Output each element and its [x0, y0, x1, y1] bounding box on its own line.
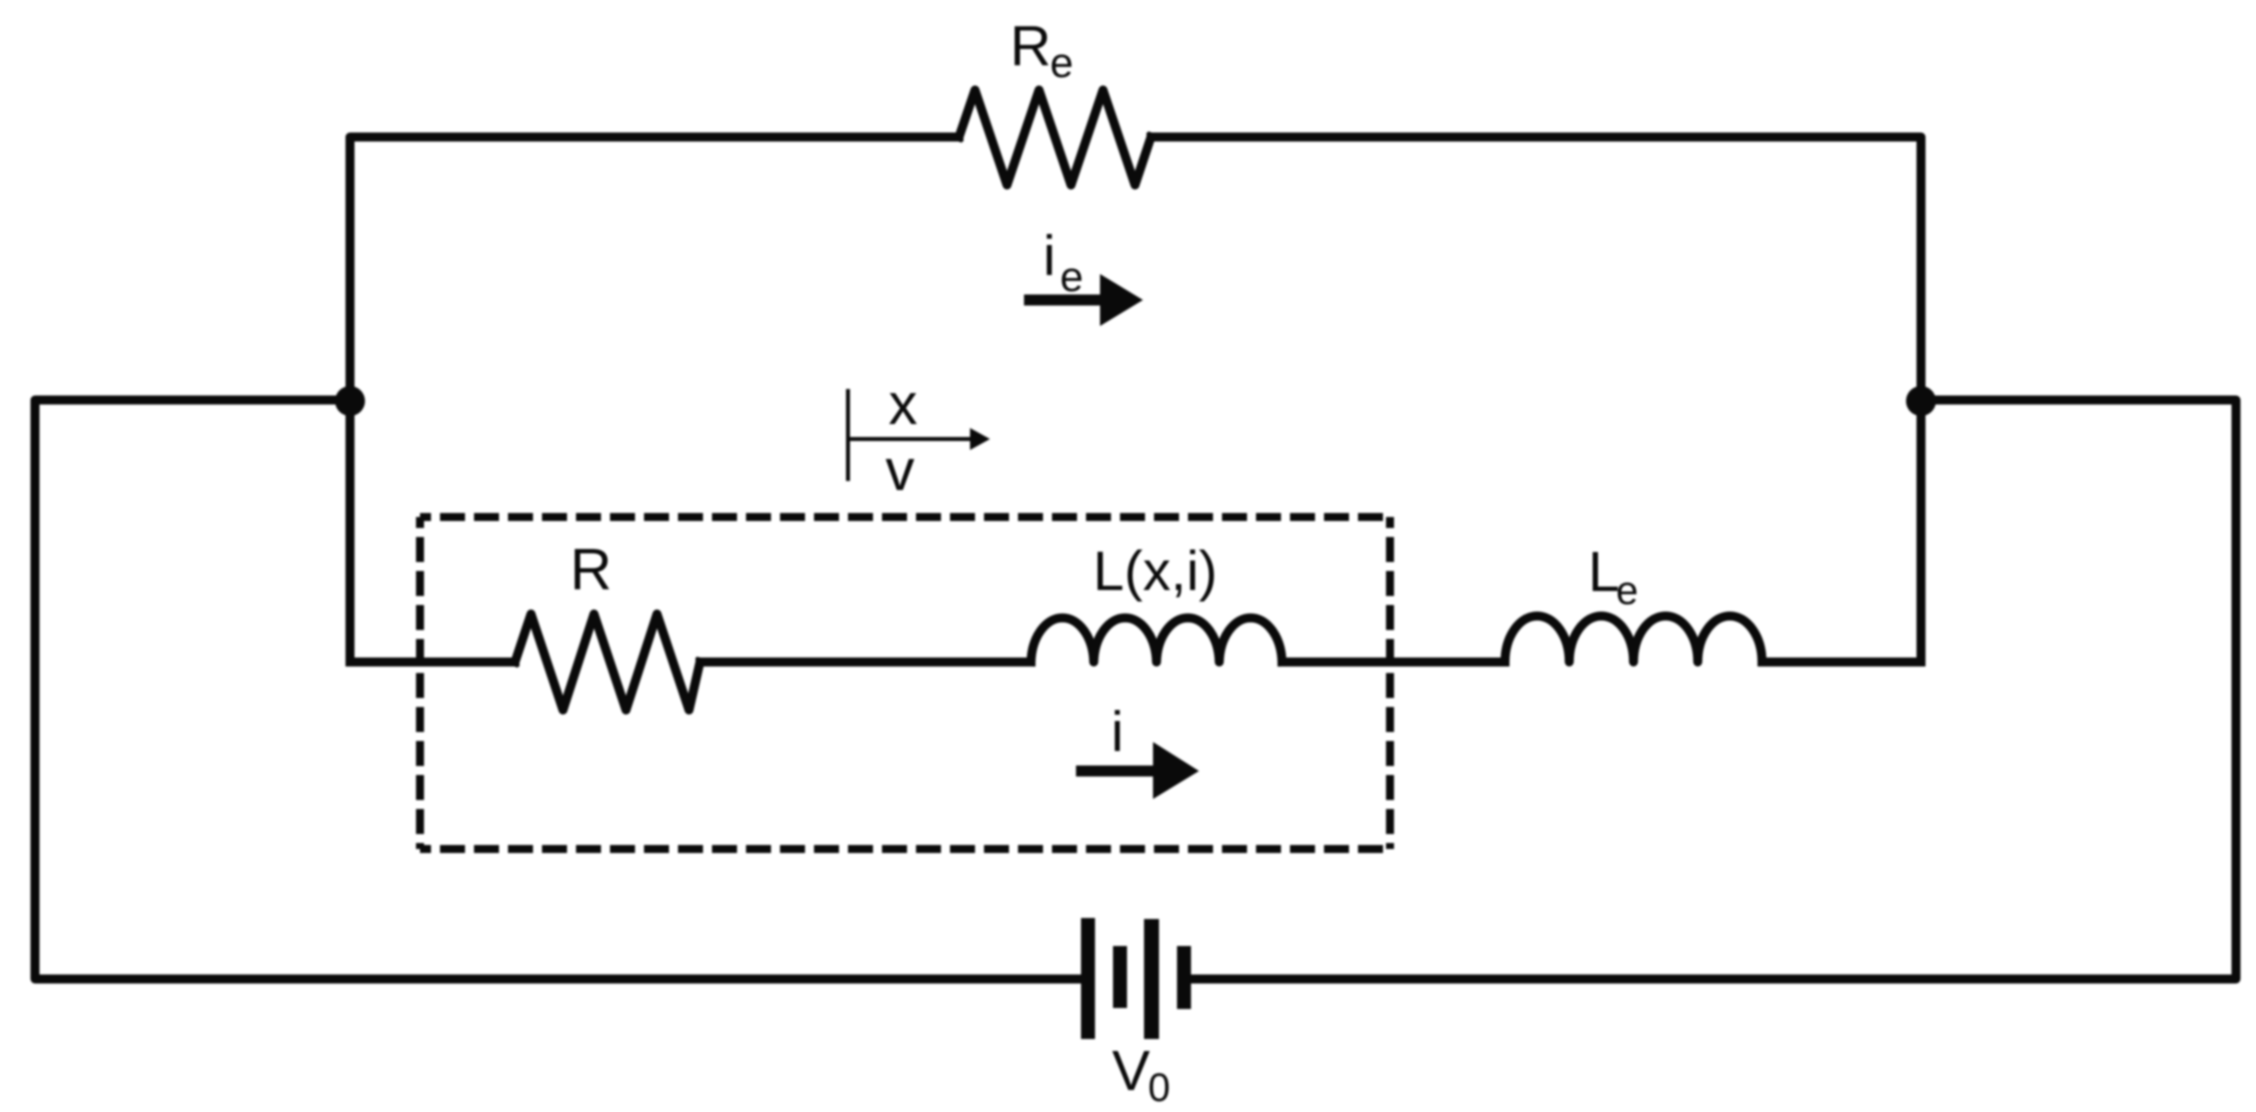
wire L(x,i) to Le — [1282, 658, 1505, 667]
node junction right — [1906, 386, 1936, 416]
svg-text:v: v — [886, 438, 915, 503]
inductor L(x,i) — [1031, 618, 1282, 662]
svg-text:i: i — [1111, 700, 1124, 764]
inductor Le — [1505, 616, 1762, 662]
wire Le to right vertical — [1762, 658, 1921, 667]
svg-text:x: x — [889, 372, 918, 437]
svg-text:R: R — [1010, 14, 1051, 78]
wire top-left segment — [350, 137, 959, 662]
battery V0 — [1081, 918, 1191, 1039]
wire top-right segment — [1151, 137, 1921, 662]
wire right outer — [1191, 400, 2236, 979]
arrow i — [1076, 742, 1199, 799]
svg-text:e: e — [1060, 253, 1083, 300]
dashed box (moving element) — [420, 517, 1390, 849]
svg-text:L: L — [1588, 540, 1620, 604]
node junction left — [335, 386, 365, 416]
resistor Re — [959, 90, 1151, 185]
svg-text:e: e — [1616, 569, 1638, 613]
axis marker x/v — [848, 389, 972, 481]
svg-text:e: e — [1050, 39, 1073, 86]
svg-text:L(x,i): L(x,i) — [1093, 539, 1217, 602]
wire R to L(x,i) — [700, 658, 1031, 667]
wire left outer — [35, 400, 1081, 979]
resistor R — [515, 614, 700, 710]
svg-text:R: R — [570, 537, 612, 602]
arrow ie — [1024, 274, 1143, 326]
wire middle branch left — [350, 658, 515, 667]
svg-text:0: 0 — [1148, 1066, 1170, 1110]
svg-text:V: V — [1112, 1039, 1150, 1103]
svg-text:i: i — [1043, 224, 1056, 288]
